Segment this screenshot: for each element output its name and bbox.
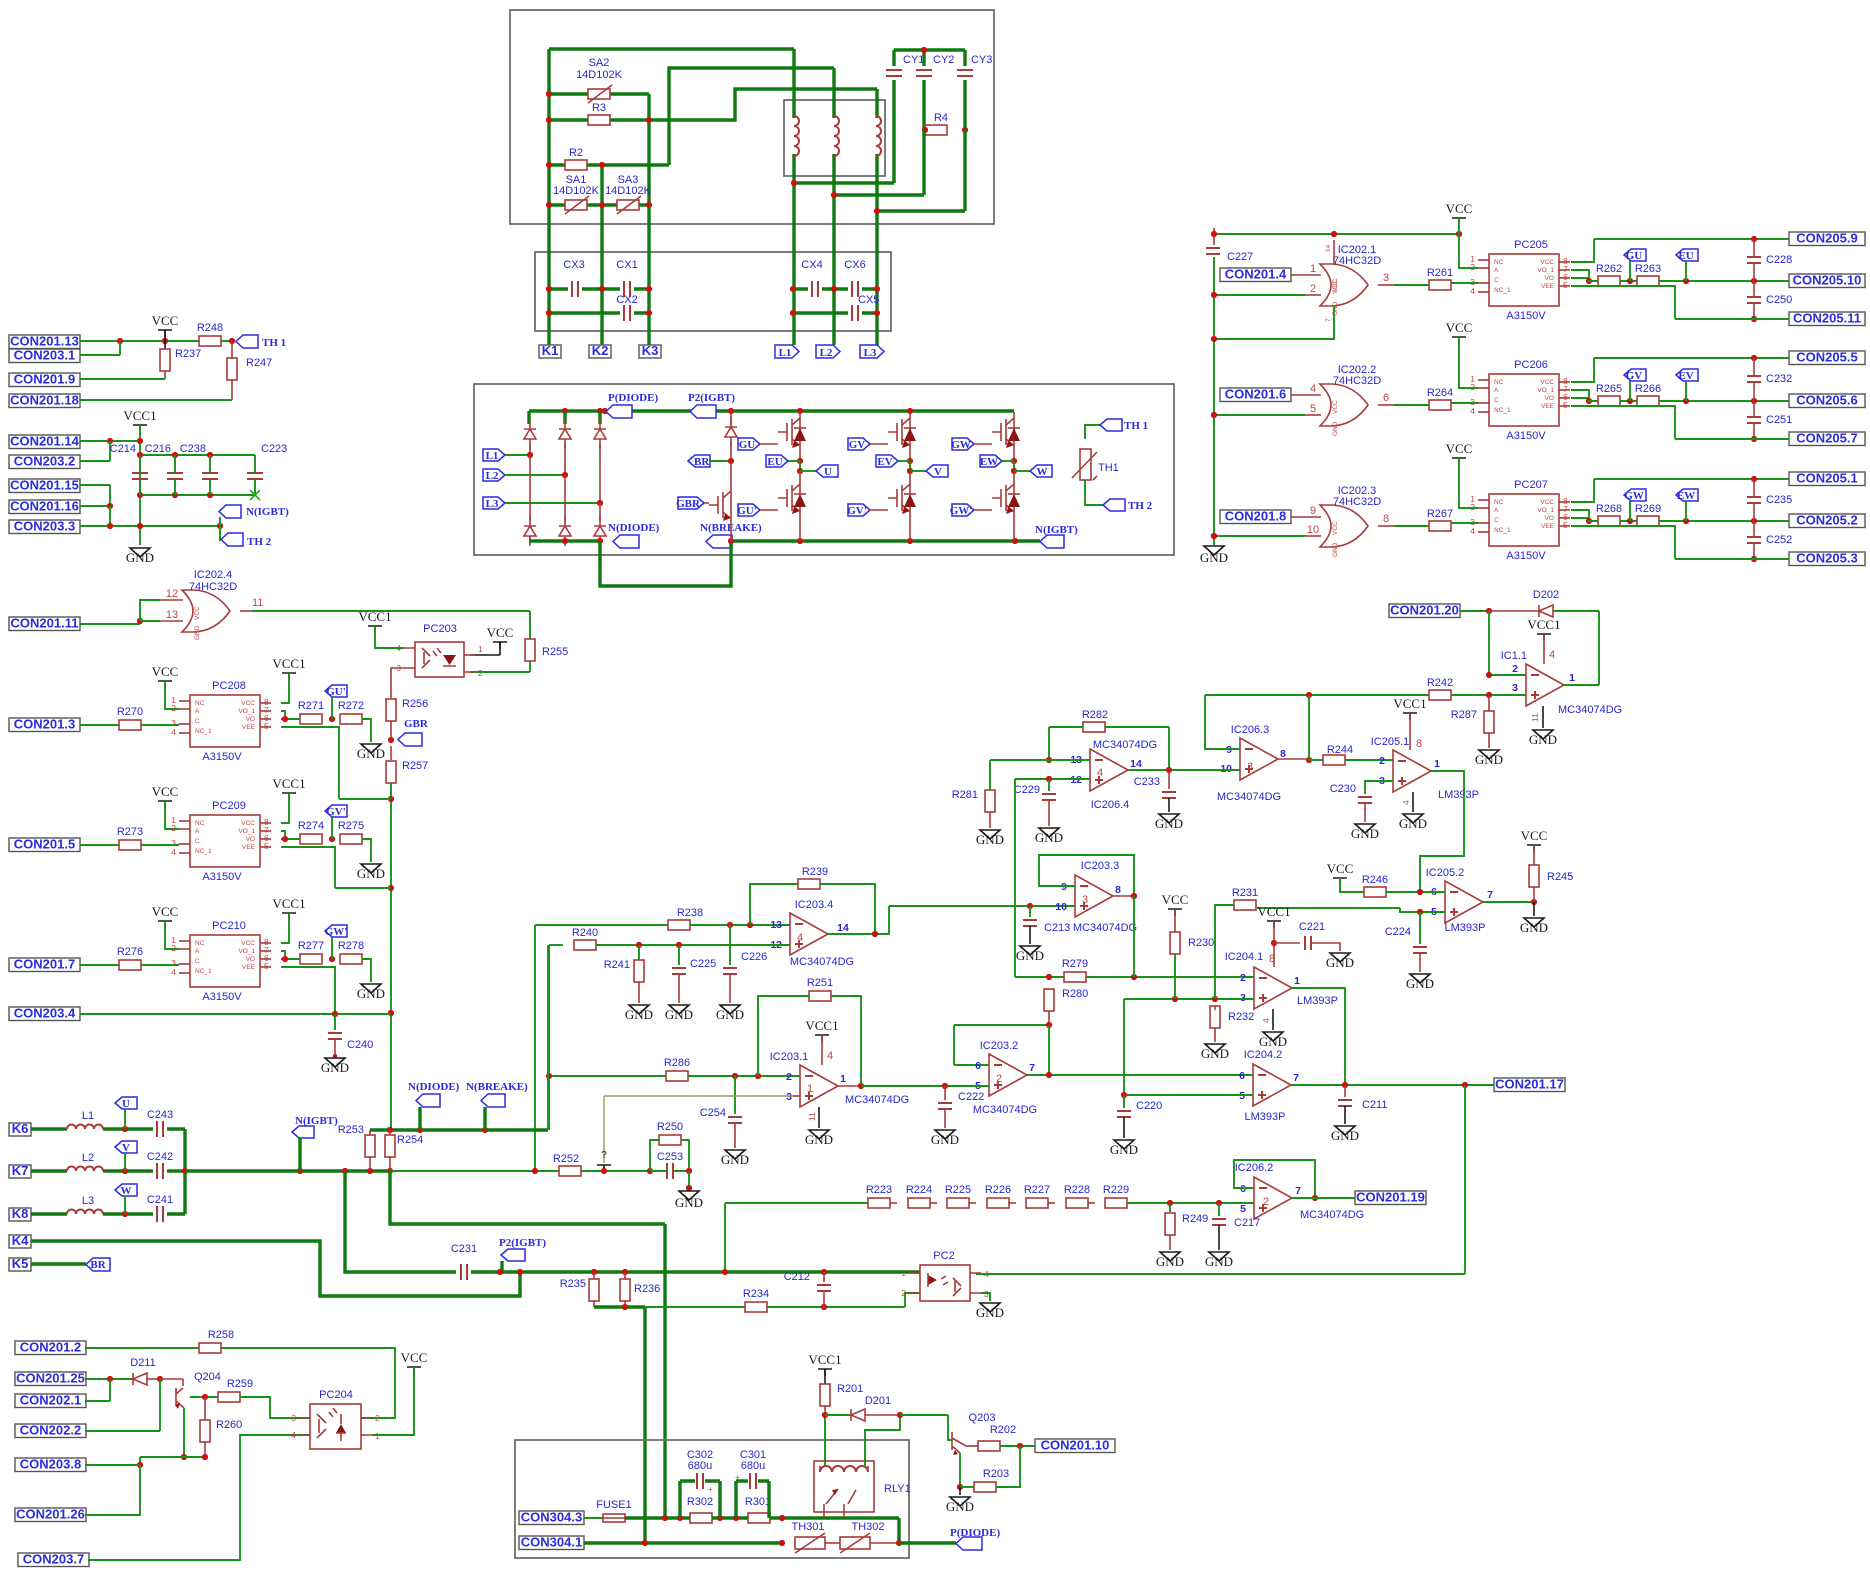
ground GND C217 (1209, 1252, 1229, 1261)
resistor R236 vertical (624, 1272, 626, 1279)
wire IC206.2 out (1292, 1197, 1355, 1199)
ground GND R241 (629, 1005, 649, 1014)
connector CON201.10 (1035, 1438, 1115, 1453)
opto-coupler PC209 (171, 815, 271, 867)
wire pins 6 7 tie (281, 711, 300, 719)
wire relay coil left (824, 1415, 826, 1466)
svg-text:C: C (1494, 277, 1499, 284)
svg-text:3: 3 (1240, 992, 1246, 1004)
svg-text:R270: R270 (117, 706, 143, 718)
inductor L1 (31, 1127, 67, 1130)
svg-text:R261: R261 (1427, 267, 1453, 279)
terminal K7 (9, 1163, 31, 1178)
wire CON203.1 up (80, 341, 120, 355)
svg-text:VCC: VCC (1540, 379, 1554, 386)
svg-text:K7: K7 (12, 1163, 29, 1178)
ground GND C221 (1330, 953, 1350, 962)
svg-text:R301: R301 (745, 1496, 771, 1508)
svg-text:74HC32D: 74HC32D (1333, 255, 1381, 267)
svg-text:VCC: VCC (194, 606, 201, 620)
svg-text:R273: R273 (117, 826, 143, 838)
svg-text:GW: GW (951, 439, 971, 451)
resistor R253 vertical (369, 1130, 371, 1135)
wire R270 to pin3 (141, 724, 179, 726)
wire mid links (1589, 280, 1789, 282)
resistor R302 (690, 1513, 712, 1523)
svg-text:GND: GND (1406, 976, 1434, 991)
svg-text:GND: GND (625, 1007, 653, 1022)
ground GND C254 (725, 1150, 745, 1159)
phase U IGBT lower (778, 478, 806, 518)
wire PC206 pins 6 7 (1571, 390, 1589, 401)
svg-text:74HC32D: 74HC32D (1333, 496, 1381, 508)
wire Q204 collector to R259 (190, 1396, 218, 1398)
resistor R265 (1598, 396, 1620, 406)
wire phase V node (909, 452, 911, 461)
svg-text:VO: VO (1545, 395, 1554, 402)
capacitor C252 (1753, 521, 1755, 536)
svg-text:PC207: PC207 (1514, 479, 1548, 491)
wire PC206 pin5 (1571, 406, 1789, 439)
op-amp IC203.4 (790, 913, 828, 955)
svg-text:GND: GND (1399, 816, 1427, 831)
wire CON202.1 up (85, 1379, 110, 1401)
resistor chain R223-R229 (725, 1202, 868, 1204)
svg-text:3: 3 (1082, 894, 1088, 906)
wire top rail L1 feed (549, 47, 794, 50)
svg-text:GND: GND (1351, 826, 1379, 841)
wire R286 row (549, 1075, 666, 1077)
wire R275 to GND (362, 839, 371, 862)
wire pin5 PC209 (281, 847, 391, 888)
svg-text:C223: C223 (261, 443, 287, 455)
wire left bus vertical (1213, 257, 1215, 545)
svg-text:VCC: VCC (152, 784, 179, 799)
svg-text:GV: GV (1626, 370, 1643, 382)
wire R280 bottom row (954, 1025, 1049, 1065)
svg-text:TH 2: TH 2 (247, 536, 272, 548)
svg-text:K8: K8 (12, 1206, 29, 1221)
wire bus to lower pin (1214, 414, 1305, 416)
resistor R271 (300, 714, 322, 724)
wire IC1.1 pin11 (1542, 706, 1544, 728)
svg-text:4: 4 (1470, 286, 1475, 296)
rectifier bottom diode 2 (564, 475, 566, 521)
wire PC206 mid row (1587, 400, 1589, 402)
svg-text:5: 5 (264, 721, 269, 731)
connector CON201.2 (15, 1340, 86, 1355)
wire Q203 collector to R202 (966, 1445, 978, 1447)
opto-coupler PC207 (1470, 494, 1570, 546)
svg-text:2: 2 (1512, 663, 1518, 675)
svg-text:MC34074DG: MC34074DG (845, 1094, 909, 1106)
svg-text:L2: L2 (82, 1152, 94, 1164)
op-amp IC1.1 (1526, 664, 1564, 706)
wire CON201.5 to R273 (80, 844, 119, 846)
resistor R254 vertical (389, 1130, 391, 1135)
svg-text:SA2: SA2 (589, 57, 610, 69)
svg-text:2: 2 (1240, 972, 1246, 984)
svg-text:R277: R277 (298, 940, 324, 952)
svg-text:IC204.1: IC204.1 (1225, 951, 1264, 963)
wire CON201.13 to TH1 (80, 340, 232, 342)
svg-text:C: C (195, 718, 200, 725)
power stage box (474, 384, 1174, 555)
svg-text:GND: GND (357, 866, 385, 881)
wire pin5 PC208 (281, 727, 391, 799)
svg-text:C225: C225 (690, 958, 716, 970)
svg-text:D211: D211 (130, 1357, 155, 1369)
svg-text:CON201.26: CON201.26 (16, 1507, 85, 1522)
connector CON202.1 (15, 1393, 86, 1408)
wire IC204.1 out (1292, 988, 1345, 1085)
connector CON205.7 (1789, 431, 1865, 446)
svg-text:VCC1: VCC1 (808, 1352, 841, 1367)
svg-text:PC210: PC210 (212, 920, 246, 932)
net tag GW upper (952, 438, 974, 450)
net tag EU (766, 455, 788, 467)
wire relay coil right (865, 1415, 900, 1466)
phase V IGBT upper (888, 412, 916, 452)
svg-text:A: A (1494, 267, 1499, 274)
wire D202 to IC1.1 out (1598, 611, 1600, 685)
wire CON203.4 row (80, 1013, 391, 1015)
svg-text:R257: R257 (402, 760, 428, 772)
wire CON201.26 route (85, 1465, 140, 1515)
resistor R277 (300, 954, 322, 964)
net pennant N(IGBT) left (219, 517, 221, 526)
svg-text:6: 6 (1240, 1183, 1246, 1195)
svg-text:VEE: VEE (1541, 403, 1555, 410)
wire pin5 PC210 (281, 967, 335, 1013)
svg-text:1: 1 (1294, 975, 1300, 987)
svg-text:10: 10 (1307, 524, 1319, 536)
wire R3 row (549, 118, 649, 121)
wire CON201.3 to R270 (80, 724, 119, 726)
svg-text:C238: C238 (180, 443, 206, 455)
svg-text:R286: R286 (664, 1057, 690, 1069)
net tag GU lower (738, 504, 760, 516)
svg-text:3: 3 (291, 1413, 296, 1423)
resistor R286 (666, 1071, 688, 1081)
wire sense drop to bottom (390, 1171, 665, 1224)
ground GND C225 (669, 1005, 689, 1014)
svg-text:R237: R237 (175, 348, 201, 360)
svg-text:C251: C251 (1766, 414, 1792, 426)
resistor R247 vertical (231, 341, 233, 358)
svg-text:IC206.2: IC206.2 (1235, 1162, 1274, 1174)
connector CON201.9 (9, 372, 80, 387)
svg-text:GND: GND (1520, 920, 1548, 935)
svg-text:R279: R279 (1062, 958, 1088, 970)
resistor R2 (565, 160, 587, 170)
svg-text:GND: GND (194, 625, 201, 640)
svg-text:4: 4 (1097, 767, 1103, 779)
svg-text:GND: GND (805, 1132, 833, 1147)
ground GND Q203 (959, 1487, 961, 1495)
wire CON201.16 row (80, 505, 110, 507)
svg-text:CON201.5: CON201.5 (14, 837, 75, 852)
svg-text:CON201.16: CON201.16 (10, 499, 79, 514)
or-gate IC202.1 (1320, 264, 1368, 306)
svg-text:Q204: Q204 (194, 1371, 221, 1383)
svg-text:GND: GND (1529, 732, 1557, 747)
opto-coupler PC205 (1470, 254, 1570, 306)
svg-text:CON201.3: CON201.3 (14, 717, 75, 732)
svg-text:9: 9 (1226, 744, 1232, 756)
capacitor C253 (667, 1163, 673, 1179)
wire R246 to pin6 (1386, 891, 1445, 893)
wire R238 row (535, 924, 668, 926)
resistor R234 (745, 1302, 767, 1312)
wire PC205 mid row (1587, 280, 1589, 282)
svg-text:6: 6 (1383, 392, 1389, 404)
wire R255 drop (529, 611, 531, 639)
phase V IGBT lower (888, 478, 916, 518)
svg-text:TH1: TH1 (1098, 462, 1119, 474)
svg-text:GND: GND (321, 1060, 349, 1075)
svg-text:10: 10 (1220, 763, 1232, 775)
wire IC203.1 pin11 (818, 1107, 820, 1128)
op-amp IC206.4 (1090, 749, 1128, 791)
capacitor C233 (1168, 770, 1170, 789)
wire CON203.7 route (88, 1435, 310, 1560)
svg-text:8: 8 (1416, 738, 1422, 750)
rectifier top diode 1 (527, 411, 530, 424)
svg-text:CON205.11: CON205.11 (1793, 311, 1861, 326)
svg-text:GND: GND (1332, 421, 1339, 436)
ground GND R232 (1205, 1044, 1225, 1053)
connector CON201.5 (9, 837, 80, 852)
wire bus to lower pin (1214, 294, 1305, 296)
svg-text:2: 2 (1263, 1196, 1269, 1208)
net pennant TH 1 (229, 338, 235, 344)
resistor R280 vertical (1044, 989, 1054, 1011)
resistor R262 (1598, 276, 1620, 286)
svg-text:VCC: VCC (1162, 892, 1189, 907)
connector CON203.4 (9, 1006, 80, 1021)
svg-text:N(IGBT): N(IGBT) (1035, 524, 1078, 536)
terminal K6 (9, 1121, 31, 1136)
svg-text:VCC1: VCC1 (358, 609, 391, 624)
svg-text:CON201.17: CON201.17 (1495, 1077, 1564, 1092)
net pennant L3 in (483, 497, 505, 509)
svg-text:GND: GND (946, 1499, 974, 1514)
svg-text:C: C (1494, 397, 1499, 404)
resistor R273 (119, 840, 141, 850)
svg-text:6: 6 (1239, 1070, 1245, 1082)
connector CON202.2 (15, 1423, 86, 1438)
svg-text:CON201.8: CON201.8 (1225, 509, 1286, 524)
svg-text:GND: GND (1110, 1142, 1138, 1157)
svg-text:?: ? (601, 1150, 607, 1161)
svg-text:GU': GU' (326, 686, 346, 698)
svg-text:BR: BR (694, 456, 710, 468)
svg-text:R247: R247 (246, 357, 272, 369)
svg-text:R225: R225 (945, 1184, 971, 1196)
wire IC203.1 out (838, 1085, 861, 1087)
wire emitter junction row (140, 1456, 205, 1458)
wire R302 out (712, 1516, 748, 1519)
net pennant L3 (860, 345, 884, 358)
wire C231 to PC2 row (471, 1270, 920, 1273)
capacitor C213 (1029, 906, 1031, 917)
svg-text:VCC1: VCC1 (1527, 617, 1560, 632)
wire R276 to pin3 (141, 964, 179, 966)
svg-text:CON201.13: CON201.13 (10, 334, 79, 349)
svg-text:R253: R253 (338, 1124, 364, 1136)
svg-text:CON201.6: CON201.6 (1225, 387, 1286, 402)
svg-text:PC203: PC203 (423, 623, 457, 635)
svg-text:GND: GND (1200, 550, 1228, 565)
wire R250 loop (650, 1140, 689, 1171)
svg-text:FUSE1: FUSE1 (596, 1499, 631, 1511)
svg-text:VO_1: VO_1 (1537, 267, 1554, 274)
svg-text:C231: C231 (451, 1243, 477, 1255)
svg-text:CON201.14: CON201.14 (10, 434, 79, 449)
svg-text:N(IGBT): N(IGBT) (295, 1115, 338, 1127)
svg-text:GU: GU (1626, 250, 1643, 262)
svg-text:R265: R265 (1596, 383, 1622, 395)
wire CON203.8 row (85, 1464, 140, 1466)
wire IC206.4 out (1128, 769, 1240, 771)
net pennant GW' (329, 956, 335, 962)
svg-text:7: 7 (1325, 318, 1332, 322)
svg-text:CY2: CY2 (933, 54, 954, 66)
wire R203 up to out (996, 1446, 1020, 1487)
svg-text:R228: R228 (1064, 1184, 1090, 1196)
svg-text:R280: R280 (1062, 988, 1088, 1000)
capacitor CX1 (624, 281, 630, 297)
resistor R246 (1364, 887, 1386, 897)
svg-text:2: 2 (375, 1413, 380, 1423)
wire R2 row (549, 163, 669, 166)
svg-text:A: A (1494, 507, 1499, 514)
wire PC205 R to pin3 (1451, 282, 1478, 284)
capacitor C211 (1344, 1085, 1346, 1097)
wire PC205 pin5 (1571, 286, 1789, 319)
svg-text:A3150V: A3150V (1506, 430, 1546, 442)
svg-text:C230: C230 (1330, 783, 1356, 795)
wire IC204.2 pin5 row (1124, 1094, 1253, 1096)
svg-text:CON201.18: CON201.18 (10, 393, 79, 408)
resistor R242 (1429, 690, 1451, 700)
capacitor C231 (461, 1264, 467, 1280)
capacitor C220 (1123, 1095, 1125, 1108)
svg-text:IC204.2: IC204.2 (1244, 1049, 1283, 1061)
svg-text:LM393P: LM393P (1445, 922, 1486, 934)
ground GND C253 (679, 1191, 699, 1200)
wire PC207 pin5 (1571, 526, 1789, 559)
capacitor C232 (1753, 358, 1755, 375)
or-gate IC202.3 (1320, 505, 1368, 547)
capacitor C238 (202, 473, 218, 479)
svg-text:EW: EW (980, 456, 998, 468)
resistor R282 (1083, 722, 1105, 732)
svg-text:13: 13 (166, 609, 178, 621)
ground GND PC209 (361, 864, 381, 873)
wire R273 to pin3 (141, 844, 179, 846)
svg-text:VCC: VCC (1332, 278, 1339, 292)
capacitor C301 electrolytic (736, 1481, 769, 1518)
svg-text:4: 4 (1470, 406, 1475, 416)
wire CON201.4 pin (1291, 274, 1321, 276)
ground GND IC205.1 (1403, 814, 1423, 823)
resistor R301 (748, 1513, 770, 1523)
svg-text:R271: R271 (298, 700, 324, 712)
connector CON201.16 (9, 499, 80, 514)
svg-text:4: 4 (1310, 383, 1316, 395)
svg-text:5: 5 (264, 841, 269, 851)
wire pin12 long vertical (1014, 779, 1016, 977)
svg-text:2: 2 (1470, 262, 1475, 272)
wire IC203.4 out (828, 906, 889, 934)
svg-text:A: A (195, 948, 200, 955)
resistor R203 (960, 1486, 974, 1488)
svg-text:W: W (1037, 466, 1048, 478)
svg-text:C214: C214 (110, 443, 136, 455)
wire relay corner down (897, 1518, 900, 1543)
svg-text:R250: R250 (657, 1121, 683, 1133)
capacitor CX3 (572, 281, 578, 297)
svg-text:680u: 680u (741, 1460, 765, 1472)
svg-text:MC34074DG: MC34074DG (1093, 739, 1157, 751)
svg-text:A3150V: A3150V (202, 751, 242, 763)
capacitor C302 electrolytic (680, 1481, 720, 1518)
ground GND C222 (935, 1130, 955, 1139)
varistor SA2 (588, 89, 610, 99)
svg-text:P2(IGBT): P2(IGBT) (499, 1237, 546, 1249)
opto-coupler PC210 (171, 935, 271, 987)
svg-text:TH 2: TH 2 (1128, 500, 1153, 512)
ground GND R249 (1160, 1252, 1180, 1261)
svg-text:9: 9 (1310, 505, 1316, 517)
wire R234 row (645, 1306, 745, 1308)
capacitor CX2 (624, 305, 630, 321)
svg-text:GND: GND (1205, 1254, 1233, 1269)
wire pin5 row (1257, 908, 1445, 912)
svg-text:GND: GND (1156, 1254, 1184, 1269)
wire PC205 pin8 (1571, 239, 1789, 262)
wire R244 to IC205.1 (1345, 759, 1393, 761)
svg-text:R256: R256 (402, 698, 428, 710)
svg-text:C224: C224 (1385, 926, 1411, 938)
svg-text:3: 3 (1383, 272, 1389, 284)
svg-text:GND: GND (1331, 1128, 1359, 1143)
wire DC+ top rail (529, 409, 1014, 412)
connector CON304.1 (519, 1535, 584, 1550)
svg-text:CON203.1: CON203.1 (14, 348, 75, 363)
svg-text:C250: C250 (1766, 294, 1792, 306)
svg-text:NC_1: NC_1 (1494, 407, 1511, 414)
wire IC204.2 out row (1291, 1084, 1494, 1086)
wire IC204.1 pin4 (1272, 1009, 1274, 1030)
wire chain drop (724, 1203, 726, 1272)
svg-text:PC205: PC205 (1514, 239, 1548, 251)
wire CON203.3 row (80, 525, 220, 527)
svg-text:C: C (195, 838, 200, 845)
op-amp IC203.2 (989, 1054, 1027, 1096)
ground GND IC203.1 (809, 1130, 829, 1139)
connector CON205.5 (1789, 350, 1865, 365)
wire CON203.2 up (80, 441, 110, 461)
op-amp IC206.3 (1240, 738, 1278, 780)
wire IC203.2 out row (1027, 1074, 1254, 1076)
capacitor C243 (157, 1121, 163, 1137)
svg-text:IC202.4: IC202.4 (194, 569, 233, 581)
resistor R255 vertical (525, 639, 535, 661)
wire cap bank bottom rail (140, 494, 255, 496)
